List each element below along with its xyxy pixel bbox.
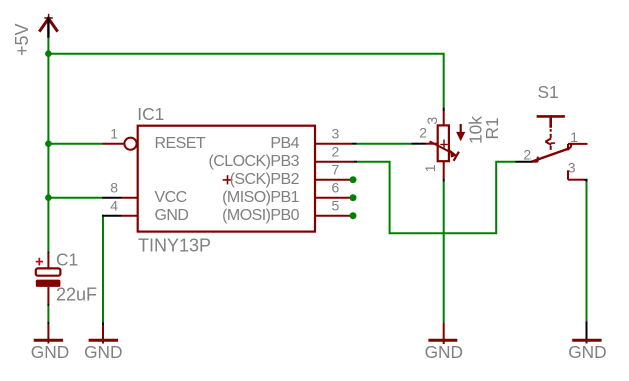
wire R1 pin1 down to GND [443, 181, 445, 322]
wire top rail horizontal to R1 [48, 54, 443, 108]
svg-text:GND: GND [425, 342, 463, 362]
S1 lever [531, 148, 570, 162]
R1 wiper arrowhead [450, 150, 457, 158]
R1 body box [438, 125, 449, 161]
C1 top wire overlap [47, 251, 49, 253]
svg-text:7: 7 [332, 161, 340, 177]
svg-text:GND: GND [155, 207, 189, 224]
svg-text:R1: R1 [482, 117, 502, 139]
wire PB4 to R1 pin2 [356, 143, 412, 145]
S1 pin 3 [568, 179, 584, 181]
pin 7 unconnected dot [350, 176, 357, 183]
svg-text:RESET: RESET [155, 135, 206, 152]
S1 actuator T bar [537, 115, 565, 118]
C1 bottom pin stub [47, 287, 49, 304]
wire overlap +5V stem [47, 17, 49, 38]
svg-text:8: 8 [110, 179, 118, 195]
supply +5V symbol [39, 14, 57, 32]
S1 chevron tick [551, 142, 555, 144]
pin 3 wire overlap [352, 143, 356, 145]
R1 top pin stub [443, 111, 445, 126]
S1 pin 1 contact hook [567, 144, 569, 151]
pin 2 PB3 stub [315, 161, 354, 163]
svg-text:PB4: PB4 [270, 135, 299, 152]
pin 1 RESET stub [103, 143, 125, 145]
S1 pin 2 contact tick [537, 157, 539, 162]
svg-text:2: 2 [332, 143, 340, 159]
wire reset from rail to IC pin1 [48, 143, 102, 145]
svg-text:22uF: 22uF [56, 285, 97, 305]
svg-text:3: 3 [332, 125, 340, 141]
S1 pin 3 contact hook [567, 170, 569, 179]
op IC1 box [138, 126, 315, 232]
svg-text:3: 3 [568, 159, 576, 175]
svg-text:(SCK)PB2: (SCK)PB2 [230, 171, 300, 188]
C1 top pin stub [47, 254, 49, 271]
svg-text:1: 1 [570, 129, 578, 145]
pin 4 wire overlap [102, 215, 122, 217]
svg-text:6: 6 [332, 179, 340, 195]
wire vcc from rail to IC pin8 [48, 197, 101, 199]
pin 1 bubble [124, 138, 136, 150]
C1 top plate [36, 268, 61, 275]
wire S1 pin3 down to GND [586, 181, 588, 321]
svg-text:TINY13P: TINY13P [138, 236, 211, 256]
svg-text:S1: S1 [538, 82, 559, 102]
svg-text:3: 3 [424, 117, 440, 125]
svg-text:C1: C1 [56, 250, 78, 270]
svg-text:+5V: +5V [12, 23, 32, 56]
S1 actuator stem [549, 115, 552, 128]
svg-text:5: 5 [332, 197, 340, 213]
svg-text:(MOSI)PB0: (MOSI)PB0 [222, 207, 299, 224]
ground GND3 [443, 323, 445, 345]
pin 4 GND stub [122, 215, 138, 217]
junction node rail vcc [45, 194, 52, 201]
S1 spring chevron [545, 138, 551, 145]
svg-text:VCC: VCC [155, 189, 187, 206]
pin 8 VCC stub [122, 197, 138, 199]
ground GND4 [586, 321, 588, 341]
R1 bottom wire overlap [443, 179, 445, 182]
wire +5V rail vertical [47, 37, 49, 251]
ground GND2 [102, 322, 104, 325]
pin 2 wire overlap [354, 161, 357, 163]
svg-text:IC1: IC1 [137, 104, 164, 124]
wire C1 bottom to GND [47, 306, 49, 323]
C1 bottom plate [36, 280, 61, 287]
S1 pin 3 wire overlap corner [584, 180, 587, 182]
pin 6 unconnected dot [350, 194, 357, 201]
wire IC pin4 gnd down [102, 215, 104, 323]
pin 5 PB0 stub [315, 215, 353, 217]
junction node rail reset [45, 140, 52, 147]
R1 top wire overlap [443, 107, 445, 111]
R1 pin2 stub [426, 143, 438, 145]
R1 wiper diagonal [430, 141, 452, 153]
svg-text:(CLOCK)PB3: (CLOCK)PB3 [208, 153, 299, 170]
svg-text:GND: GND [84, 342, 122, 362]
pin 3 PB4 stub [315, 143, 352, 145]
pin 5 unconnected dot [350, 212, 357, 219]
R1 origin cross [440, 140, 447, 150]
R1 adjust arrow [460, 124, 462, 135]
svg-text:2: 2 [419, 125, 427, 141]
S1 lever tip hook [570, 143, 572, 148]
C1 bottom wire overlap [47, 303, 49, 305]
R1 bottom pin stub [443, 161, 445, 178]
S1 pin 2 wire overlap [516, 161, 533, 163]
pin 8 wire overlap [102, 197, 122, 199]
S1 pin 2 stub [532, 161, 538, 163]
S1 pin 1 [568, 143, 588, 145]
svg-text:4: 4 [110, 197, 118, 213]
svg-text:GND: GND [568, 342, 606, 362]
svg-text:2: 2 [523, 147, 531, 163]
svg-text:1: 1 [110, 125, 118, 141]
ground GND1 [47, 322, 49, 325]
svg-text:(MISO)PB1: (MISO)PB1 [222, 189, 299, 206]
pin 7 PB2 stub [315, 179, 353, 181]
R1 wiper slash [454, 152, 459, 161]
svg-text:1: 1 [422, 164, 438, 172]
IC origin cross [223, 175, 233, 184]
pin 6 PB1 stub [315, 197, 353, 199]
S1 actuator dashes [550, 129, 552, 150]
C1 plus sign [36, 258, 43, 266]
wire PB3 to S1 pin2 [357, 162, 516, 234]
svg-text:GND: GND [31, 342, 69, 362]
junction node rail top [45, 50, 52, 57]
R1 pin2 wire overlap [412, 143, 427, 145]
